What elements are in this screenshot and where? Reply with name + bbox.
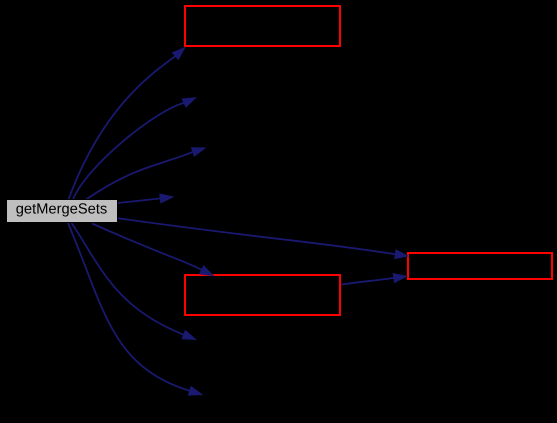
arrowhead 1 <box>172 47 186 61</box>
edge 3 <box>86 152 192 199</box>
edge 2 <box>73 103 184 200</box>
arrowhead 8 <box>188 386 204 396</box>
arrowhead 9 <box>393 273 408 283</box>
edge 4 <box>118 198 161 203</box>
edge 7 <box>72 223 185 335</box>
node box (middle, red) <box>185 275 340 315</box>
arrowhead 2 <box>181 97 197 108</box>
edge 9: middle box -> right box <box>342 278 395 285</box>
arrowhead 7 <box>181 330 197 340</box>
edge 5: getMergeSets -> right box <box>118 218 395 254</box>
node box (top, red) <box>185 6 340 46</box>
arrowhead 4 <box>159 193 174 203</box>
arrowhead 5 <box>394 249 409 259</box>
arrowhead 6 <box>199 265 215 276</box>
node getMergeSets (gray) <box>7 200 118 223</box>
edge 6: getMergeSets -> middle box <box>92 224 201 270</box>
edge 1: getMergeSets -> top box <box>69 56 176 200</box>
edge 8 <box>68 223 190 391</box>
node box (right, red) <box>408 253 552 279</box>
arrowhead 3 <box>191 147 207 157</box>
